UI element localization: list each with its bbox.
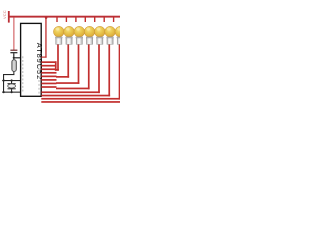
- port pin wire P2.2: [41, 68, 56, 70]
- LED D7 ball: [115, 26, 126, 37]
- LED D2 cathode wire: [67, 44, 69, 78]
- LED D4 highlight: [86, 28, 90, 31]
- junction XTAL1 crystal: [11, 79, 13, 81]
- svg-text:VCC: VCC: [2, 10, 7, 19]
- junction RST node: [13, 57, 15, 59]
- port wire P2.0 fan level: [55, 69, 59, 71]
- LED D6 highlight: [107, 28, 111, 31]
- LED D7 anode stub on rail: [113, 17, 114, 22]
- port wire P2.5 fan level: [41, 95, 110, 97]
- LED D6 ball: [105, 26, 116, 37]
- LED D2 base rim: [66, 37, 73, 38]
- port wire P2.3 fan level: [56, 88, 90, 90]
- LED D6 base rim: [107, 37, 114, 38]
- junction EA rail: [45, 16, 48, 19]
- capacitor C3 top plate: [10, 50, 17, 51]
- port pin wire P2.1: [41, 65, 56, 67]
- LED D5 anode stub on rail: [94, 17, 95, 22]
- LED D4 base rim: [86, 37, 93, 38]
- LED D3 base: [76, 37, 82, 44]
- port wire P2.6 fan level: [41, 98, 120, 100]
- LED D3 base rim: [76, 37, 83, 38]
- wire RST node to pin 9: [13, 57, 21, 58]
- port pin wire P2.4: [41, 76, 56, 78]
- wire EA to VCC vertical: [45, 17, 46, 58]
- LED D3 highlight: [76, 28, 80, 31]
- LED D1 base rim: [55, 37, 62, 38]
- port pin wire P2.5: [41, 79, 56, 81]
- pin numbers right column: [39, 57, 40, 94]
- junction XTAL2 crystal: [11, 91, 13, 93]
- LED D5 cathode wire: [98, 44, 100, 93]
- LED D1 highlight: [56, 28, 60, 31]
- power rail VCC: [9, 16, 120, 18]
- LED D4 base: [86, 37, 92, 44]
- port wire P2.1 fan level: [56, 76, 69, 78]
- resistor R1: [12, 60, 17, 72]
- IC U1 AT89C52: [21, 23, 42, 96]
- resistor R1 lead bottom: [13, 71, 14, 74]
- LED D3 anode stub on rail: [75, 17, 76, 22]
- LED D2 base: [66, 37, 72, 44]
- wire VCC to reset capacitor: [13, 17, 14, 49]
- LED D3 cathode wire: [78, 44, 80, 84]
- wire ground riser: [3, 74, 4, 93]
- LED D6 anode stub on rail: [104, 17, 105, 22]
- LED D1 ball: [53, 26, 64, 37]
- crystal X1 stub bottom: [11, 89, 12, 92]
- LED D3 ball: [74, 26, 85, 37]
- crystal X1 plate top: [8, 83, 16, 84]
- port wire P2.7 fan level: [41, 101, 120, 103]
- LED D4 ball: [84, 26, 95, 37]
- LED D1 base: [56, 37, 62, 44]
- resistor R1 lead top: [13, 58, 14, 60]
- pin numbers left column: [22, 56, 23, 91]
- LED D1 cathode wire: [57, 44, 59, 71]
- LED D4 anode stub on rail: [85, 17, 86, 22]
- LED D5 base rim: [96, 37, 103, 38]
- port wire P2.0 jog down: [55, 61, 57, 70]
- LED D7 highlight: [117, 28, 121, 31]
- LED D7 cathode wire: [119, 44, 121, 100]
- LED D2 ball: [64, 26, 75, 37]
- port pin wire P2.0: [41, 61, 56, 63]
- LED D5 highlight: [97, 28, 101, 31]
- wire R1 to ground elbow: [3, 74, 14, 75]
- LED D2 highlight: [66, 28, 70, 31]
- crystal X1 plate bottom: [8, 88, 16, 89]
- port pin wire P2.3: [41, 72, 56, 74]
- capacitor C3 bottom plate: [10, 52, 17, 53]
- port wire P2.2 fan level: [56, 82, 79, 84]
- power symbol VCC bar: [8, 11, 10, 23]
- LED D7 base: [117, 37, 123, 44]
- LED D2 anode stub on rail: [66, 17, 67, 22]
- port pin wire P2.7: [41, 86, 56, 88]
- junction XTAL2 ground: [3, 91, 5, 93]
- wire C3 to RST node: [13, 53, 14, 58]
- port pin wire P2.6: [41, 83, 56, 85]
- LED D6 cathode wire: [108, 44, 110, 96]
- junction XTAL1 ground: [3, 79, 5, 81]
- LED D5 ball: [94, 26, 105, 37]
- wire XTAL1 net: [2, 80, 21, 81]
- LED D7 base rim: [117, 37, 124, 38]
- LED D5 base: [97, 37, 103, 44]
- wire XTAL2 net: [2, 92, 21, 93]
- crystal X1 stub top: [11, 81, 12, 83]
- LED D4 cathode wire: [88, 44, 90, 89]
- port wire P2.4 fan level: [41, 91, 100, 93]
- LED D1 anode stub on rail: [56, 17, 57, 22]
- LED D6 base: [107, 37, 113, 44]
- crystal X1 body: [8, 84, 16, 88]
- wire EA to VCC horizontal: [41, 57, 46, 58]
